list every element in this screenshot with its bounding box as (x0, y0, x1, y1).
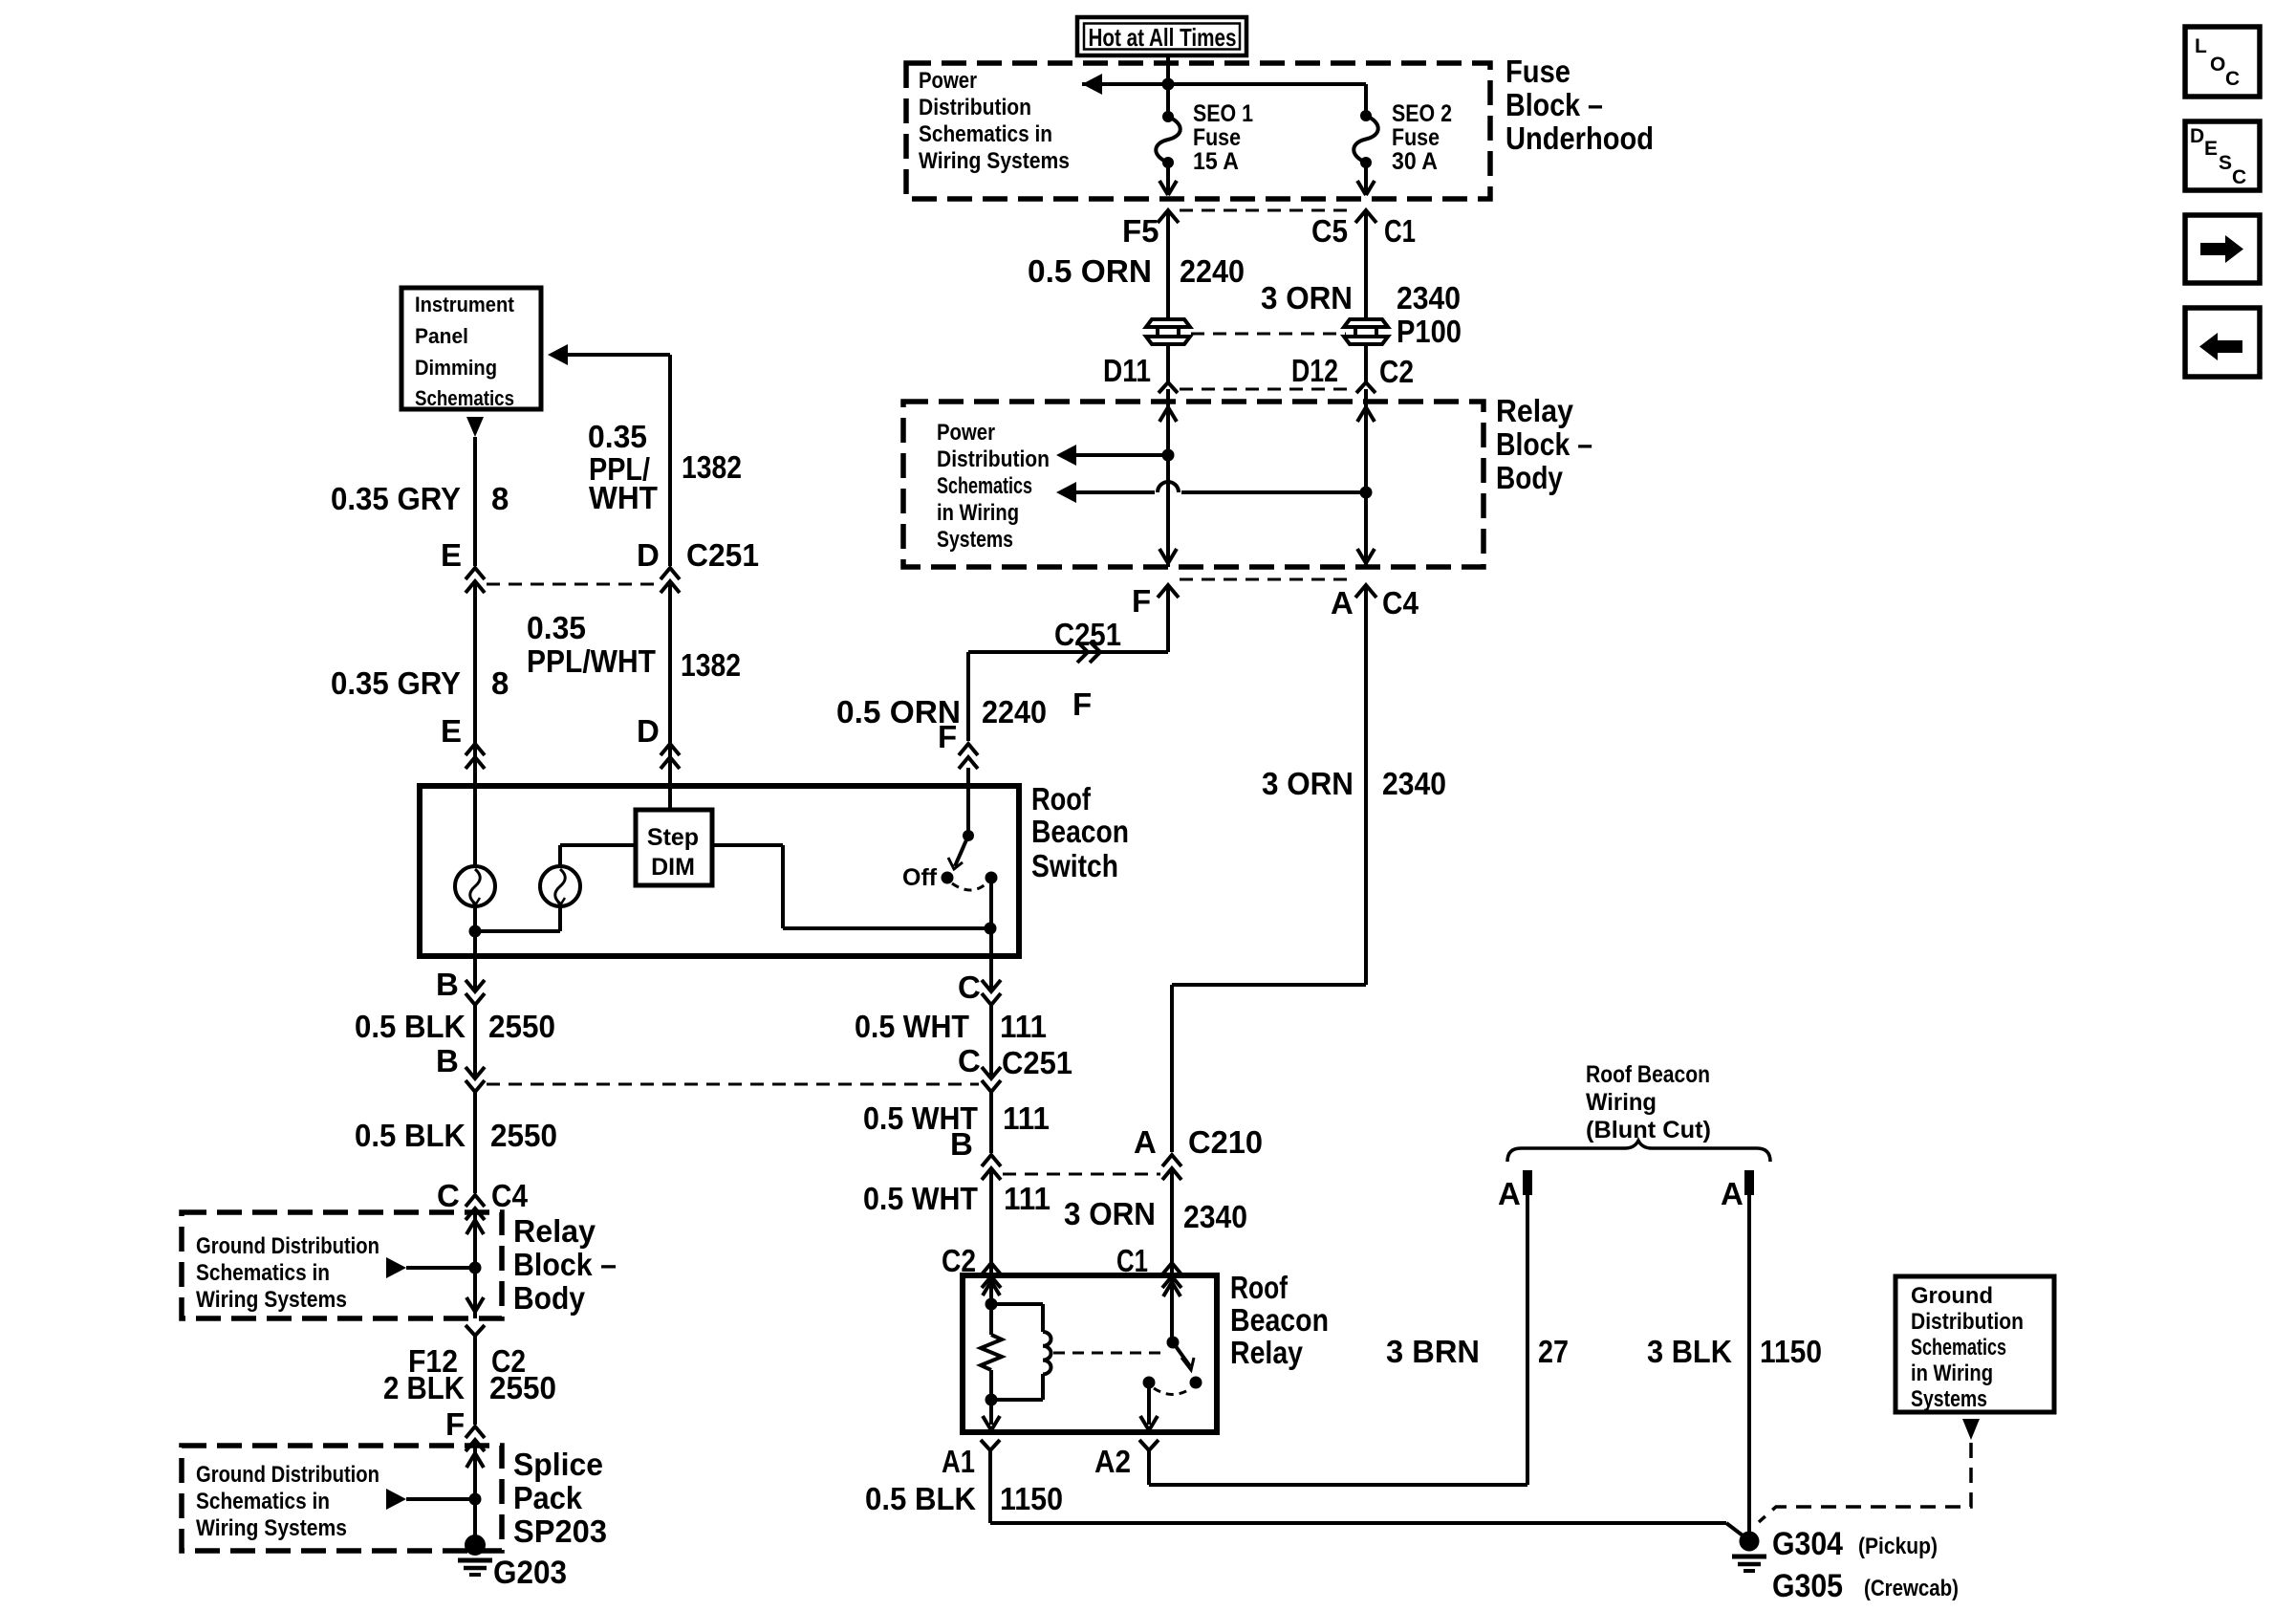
inline connector P100 on 3 ORN wire (1344, 319, 1388, 344)
svg-text:Body: Body (513, 1280, 586, 1316)
svg-text:SP203: SP203 (513, 1513, 607, 1549)
svg-text:D: D (637, 713, 660, 749)
wire: lamp bottoms joined (469, 925, 561, 957)
label: 3 BLK 1150 (1647, 1334, 1822, 1369)
text: Ground Distribution Schematics in Wiring Systems (splice pack) (196, 1462, 379, 1541)
box: Step DIM module (636, 810, 712, 885)
inline connector C210 on 3 ORN wire (1162, 1155, 1181, 1180)
label F (relay block output) (1132, 583, 1151, 619)
svg-text:Distribution: Distribution (919, 95, 1031, 120)
svg-text:C4: C4 (491, 1178, 529, 1213)
connector at switch terminal D (661, 744, 680, 769)
relay block - body dashed border (ground, left) (182, 1212, 502, 1318)
svg-text:B: B (436, 967, 459, 1002)
svg-text:G203: G203 (493, 1555, 567, 1591)
svg-text:1150: 1150 (1000, 1481, 1063, 1516)
svg-text:0.5 WHT: 0.5 WHT (863, 1181, 978, 1216)
svg-text:Schematics in: Schematics in (196, 1260, 330, 1286)
svg-text:C251: C251 (1002, 1045, 1072, 1080)
relay switch blade with arrowhead (1173, 1342, 1194, 1370)
label A (blunt cut right) (1721, 1176, 1744, 1211)
inline connector C251 on horizontal 0.5 ORN run (1077, 642, 1100, 663)
wire 0.5 WHT 111 from C251 to C210 (989, 1092, 993, 1153)
svg-text:C: C (2225, 68, 2240, 90)
svg-text:0.5 WHT: 0.5 WHT (855, 1009, 969, 1044)
svg-text:P100: P100 (1397, 314, 1462, 349)
label: 0.5 WHT 111 (upper) (855, 1009, 1047, 1044)
svg-text:Schematics: Schematics (1911, 1335, 2006, 1361)
fuse F2 SEO 2 Fuse 30 A (1354, 110, 1378, 168)
svg-text:Beacon: Beacon (1230, 1302, 1329, 1338)
label: 0.5 WHT 111 (middle) (863, 1100, 1050, 1136)
wire 0.35 GRY 8 from Instrument Panel box down to C251 (466, 417, 484, 566)
label: 0.5 ORN 2240 (fuse output) (1028, 253, 1245, 289)
svg-text:2340: 2340 (1183, 1199, 1247, 1234)
label: 0.5 ORN 2240 at switch feed (836, 694, 1047, 729)
label C2 (relay block top) (1379, 354, 1414, 389)
svg-text:C2: C2 (1379, 354, 1414, 389)
svg-text:WHT: WHT (589, 480, 658, 515)
blunt cut end (3 BLK) (1744, 1170, 1754, 1195)
label C (C4 row) (437, 1178, 460, 1213)
button previous (left arrow) (2185, 308, 2260, 377)
svg-text:1150: 1150 (1760, 1334, 1822, 1369)
svg-text:Schematics in: Schematics in (196, 1489, 330, 1514)
svg-text:0.5 BLK: 0.5 BLK (355, 1009, 466, 1044)
relay common contact dot (1167, 1337, 1180, 1349)
svg-text:Underhood: Underhood (1505, 120, 1654, 156)
label: 0.5 BLK 2550 (upper) (355, 1009, 555, 1044)
svg-text:Beacon: Beacon (1031, 814, 1129, 849)
junction dot relay block left bus (1162, 449, 1175, 462)
label: 0.5 BLK 2550 (lower) (355, 1118, 557, 1153)
svg-text:(Crewcab): (Crewcab) (1864, 1576, 1959, 1601)
svg-text:Roof: Roof (1230, 1270, 1289, 1305)
button LOC (2185, 27, 2260, 97)
wire 3 ORN 2340: C4 down, left, down to C210 (1172, 585, 1366, 1152)
wire: resistor to A1 leg (983, 1370, 1000, 1430)
label B (C210 row) (950, 1126, 973, 1162)
label C251 (B-C row) (1002, 1045, 1072, 1080)
text: Power Distribution Schematics in Wiring Systems (fuse block) (919, 68, 1070, 174)
svg-text:1382: 1382 (681, 647, 741, 683)
label F12 (408, 1343, 458, 1379)
connector at relay terminal A1 (981, 1440, 1000, 1450)
label: 0.35 PPL/WHT 1382 (lower) (527, 610, 741, 683)
wire: relay NC contact to A2 leg (1140, 1382, 1158, 1430)
label C210 (1188, 1124, 1263, 1160)
wire: Step DIM left pin to lamp 2 (560, 843, 636, 847)
svg-text:A2: A2 (1094, 1444, 1131, 1479)
box: Instrument Panel Dimming Schematics (401, 288, 541, 410)
arrow to power distribution schematics (upper) (1056, 445, 1168, 466)
svg-text:27: 27 (1538, 1334, 1569, 1369)
svg-text:F: F (445, 1406, 465, 1442)
svg-text:Ground Distribution: Ground Distribution (196, 1462, 379, 1488)
label C1 (1384, 213, 1416, 249)
label C (switch output) (958, 969, 981, 1005)
label: 0.5 WHT 111 (lower) (863, 1181, 1051, 1216)
dashed link C251 E-D (487, 583, 659, 586)
label A (C210 row) (1134, 1124, 1157, 1160)
svg-text:PPL/WHT: PPL/WHT (527, 643, 656, 679)
connector below left relay block (466, 1325, 485, 1336)
svg-text:A: A (1331, 585, 1354, 620)
svg-text:B: B (436, 1043, 459, 1078)
label F (splice pack input) (445, 1406, 465, 1442)
connector at switch terminal B (466, 980, 485, 1005)
switch contact dots and dashed travel arc (942, 872, 998, 891)
svg-text:Fuse: Fuse (1392, 124, 1440, 151)
label C251 (horizontal run) (1054, 617, 1121, 652)
svg-text:0.5 BLK: 0.5 BLK (865, 1481, 976, 1516)
junction dot in left relay block (469, 1262, 482, 1274)
svg-text:E: E (441, 713, 462, 749)
junction dot relay bottom-left (986, 1394, 998, 1406)
box: Ground Distribution Schematics in Wiring Systems (right) (1895, 1276, 2054, 1412)
svg-text:111: 111 (1000, 1009, 1047, 1044)
svg-text:2240: 2240 (1180, 253, 1245, 289)
label C1 (relay input) (1116, 1243, 1148, 1278)
label F (below C251 run) (1072, 686, 1092, 722)
svg-text:F: F (1072, 686, 1092, 722)
svg-text:SEO 2: SEO 2 (1392, 100, 1452, 127)
label: Roof Beacon Switch (1031, 781, 1129, 883)
label: Relay Block - Body (left) (513, 1213, 617, 1316)
svg-text:Power: Power (937, 420, 995, 446)
inline connector C210 on WHT wire (982, 1155, 1001, 1180)
connector at relay terminal C1 (1162, 1263, 1181, 1288)
svg-text:Wiring Systems: Wiring Systems (919, 148, 1070, 174)
wire 3 ORN 2340 from C210 to relay C1 (1170, 1168, 1174, 1275)
fuse block - underhood dashed border (906, 63, 1490, 199)
svg-text:Schematics in: Schematics in (919, 121, 1052, 147)
svg-text:C251: C251 (686, 537, 759, 573)
svg-text:Relay: Relay (1496, 393, 1574, 428)
dashed link between P100 halves (1191, 333, 1346, 336)
svg-text:O: O (2210, 54, 2225, 76)
svg-text:in Wiring: in Wiring (1911, 1361, 1993, 1386)
wire through splice pack to ground (466, 1440, 484, 1541)
wire 0.5 BLK 1150 from A1 to ground G304 (990, 1450, 1746, 1538)
svg-text:3 BLK: 3 BLK (1647, 1334, 1732, 1369)
svg-text:3 BRN: 3 BRN (1386, 1334, 1480, 1369)
svg-text:Roof: Roof (1031, 781, 1092, 816)
connector at switch terminal C (982, 980, 1001, 1005)
label: 0.35 PPL/WHT 1382 (upper) (588, 419, 742, 515)
label C2 (relay input) (942, 1243, 976, 1278)
label C251 (E-D row) (686, 537, 759, 573)
svg-text:0.35: 0.35 (588, 419, 647, 454)
svg-text:D12: D12 (1291, 353, 1338, 388)
svg-text:0.5 BLK: 0.5 BLK (355, 1118, 466, 1153)
dashed actuation link from coil to relay contacts (1053, 1352, 1162, 1355)
label: 3 ORN 2340 (lower) (1064, 1196, 1247, 1234)
wire 0.5 ORN 2240 from F5 to P100 (1166, 210, 1170, 321)
svg-text:Ground Distribution: Ground Distribution (196, 1233, 379, 1259)
svg-text:1382: 1382 (682, 449, 742, 485)
box: Roof Beacon Switch (420, 786, 1019, 956)
arrow from PPL/WHT wire into Instrument Panel box (548, 344, 670, 566)
text: Power Distribution Schematics in Wiring Systems (relay block) (937, 420, 1050, 553)
label D (lower) (637, 713, 660, 749)
wire: relay C2 leg to resistor (983, 1275, 1000, 1335)
label C2 (left relay block) (491, 1343, 526, 1379)
wire 0.5 WHT 111 from C210 to relay C2 (989, 1168, 993, 1275)
svg-text:Schematics: Schematics (415, 386, 514, 410)
connector at relay terminal A2 (1139, 1440, 1159, 1450)
svg-text:Ground: Ground (1911, 1283, 1993, 1309)
svg-text:Wiring: Wiring (1586, 1089, 1657, 1116)
svg-text:Relay: Relay (513, 1213, 596, 1249)
label: Roof Beacon Wiring (Blunt Cut) (1586, 1061, 1711, 1143)
wire from A2 right to 3 BRN splice (1149, 1450, 1527, 1485)
svg-text:3 ORN: 3 ORN (1261, 280, 1353, 316)
wire 0.5 BLK 2550 from C251 to C4 (473, 1092, 477, 1193)
wire: right bus through relay block body (D12-C2 to A-C4) (1357, 389, 1375, 567)
svg-text:A: A (1498, 1176, 1521, 1211)
svg-text:F: F (1132, 583, 1151, 619)
svg-text:D11: D11 (1103, 353, 1151, 388)
relay coil L1 (991, 1304, 1051, 1400)
svg-text:8: 8 (491, 665, 509, 701)
label D11 (1103, 353, 1151, 388)
svg-text:111: 111 (1003, 1100, 1050, 1136)
svg-text:C: C (437, 1178, 460, 1213)
label C4 (relay block output) (1382, 585, 1419, 620)
svg-text:Wiring Systems: Wiring Systems (196, 1287, 347, 1313)
label: Roof Beacon Relay (1230, 1270, 1329, 1370)
svg-text:2550: 2550 (490, 1118, 557, 1153)
arrow from ground distribution text to wire (relay block) (386, 1257, 469, 1278)
svg-text:15 A: 15 A (1193, 148, 1239, 175)
arrow to power distribution schematics (lower) with hop over left bus (1056, 482, 1366, 503)
label: 0.35 GRY 8 (lower) (331, 665, 509, 701)
svg-text:8: 8 (491, 481, 509, 516)
svg-text:Distribution: Distribution (937, 446, 1050, 472)
svg-text:0.35 GRY: 0.35 GRY (331, 665, 461, 701)
wire 3 BRN 27 blunt cut down to A2 junction (1526, 1195, 1529, 1485)
svg-text:C1: C1 (1384, 213, 1416, 249)
svg-text:(Pickup): (Pickup) (1858, 1534, 1938, 1559)
lamp (illumination bulb 1) in switch (455, 786, 495, 931)
wire 0.5 BLK 2550 from B to C251 (473, 956, 477, 1078)
label: Fuse Block - Underhood (1505, 54, 1654, 156)
svg-text:(Blunt Cut): (Blunt Cut) (1586, 1117, 1711, 1143)
splice pack dashed border (182, 1446, 502, 1551)
svg-text:Block –: Block – (1505, 87, 1603, 122)
inline connector C251 on GRY wire (466, 568, 485, 593)
svg-text:C5: C5 (1311, 213, 1348, 249)
label: SEO 1 Fuse 15 A (1193, 100, 1253, 175)
label E (lower) (441, 713, 462, 749)
label: 3 ORN 2340 on C4 drop (1262, 766, 1446, 801)
connector row F / A-C4 below relay block body (1158, 579, 1376, 598)
box: Hot at All Times (1077, 17, 1246, 55)
svg-text:Hot at All Times: Hot at All Times (1089, 23, 1237, 52)
svg-text:DIM: DIM (651, 854, 695, 881)
label: Splice Pack SP203 (513, 1447, 607, 1549)
svg-text:Systems: Systems (1911, 1386, 1987, 1412)
connector row F5 / C5-C1 below fuse block (1158, 210, 1376, 223)
label: 2 BLK 2550 (383, 1370, 556, 1405)
svg-text:Fuse: Fuse (1505, 54, 1570, 89)
ground G203 (458, 1535, 492, 1575)
wire 3 BLK 1150 blunt cut down to ground G304 (1747, 1195, 1751, 1534)
label: 3 BRN 27 (1386, 1334, 1569, 1369)
svg-text:2240: 2240 (982, 694, 1047, 729)
svg-text:A: A (1134, 1124, 1157, 1160)
dashed link C210 (1003, 1173, 1160, 1176)
svg-text:Block –: Block – (513, 1247, 617, 1282)
svg-text:G304: G304 (1772, 1526, 1843, 1562)
label A2 (1094, 1444, 1131, 1479)
svg-text:E: E (441, 537, 462, 573)
wire: relay C1 leg to common contact (1163, 1275, 1180, 1342)
wire 0.35 PPL/WHT 1382 from C251 to switch terminal D (668, 581, 672, 810)
svg-text:0.35: 0.35 (527, 610, 586, 645)
blunt cut end (3 BRN) (1523, 1170, 1532, 1195)
label Off (902, 864, 938, 891)
label: Relay Block - Body (1496, 393, 1592, 495)
svg-text:0.5 ORN: 0.5 ORN (1028, 253, 1152, 289)
wire segment: battery feed from Hot at All Times into fuse block (1166, 55, 1170, 117)
svg-text:S: S (2219, 152, 2232, 174)
junction dot relay top-left (986, 1298, 998, 1311)
svg-text:D: D (2190, 125, 2204, 147)
svg-text:C: C (958, 1043, 981, 1078)
resistor R (relay suppression) (981, 1335, 1002, 1370)
svg-text:0.35 GRY: 0.35 GRY (331, 481, 461, 516)
svg-text:Block –: Block – (1496, 426, 1592, 462)
relay contact dots and dashed travel arc (1143, 1377, 1202, 1395)
label D (upper) (637, 537, 660, 573)
inline connector C251 on WHT wire (982, 1067, 1001, 1092)
svg-text:111: 111 (1004, 1181, 1051, 1216)
wire: SEO1 fuse output to F5 terminal (1159, 163, 1177, 195)
svg-text:C210: C210 (1188, 1124, 1263, 1160)
button DESC (2185, 121, 2260, 190)
connector at relay terminal C2 (982, 1263, 1001, 1288)
label C4 (relay block body input) (491, 1178, 529, 1213)
svg-text:2550: 2550 (488, 1009, 555, 1044)
wire: P100 to D12 (1364, 342, 1368, 382)
svg-text:F5: F5 (1122, 213, 1159, 249)
box: Roof Beacon Relay (963, 1275, 1217, 1432)
svg-text:F: F (938, 719, 957, 754)
relay block - body dashed border (903, 402, 1484, 567)
label F5 (1122, 213, 1159, 249)
svg-text:Off: Off (902, 864, 938, 891)
connector row D11 / D12-C2 above relay block body (1159, 382, 1375, 393)
dashed link C251 B-C (487, 1083, 979, 1086)
dashed arrow from ground distribution box to G304 (1759, 1419, 1980, 1522)
arrow from ground distribution text to wire (splice pack) (386, 1489, 469, 1510)
svg-text:E: E (2204, 138, 2218, 160)
svg-text:Distribution: Distribution (1911, 1309, 2024, 1335)
svg-text:Schematics: Schematics (937, 473, 1032, 499)
svg-text:2 BLK: 2 BLK (383, 1370, 465, 1405)
wire: left bus through relay block body (D11 to F) (1159, 389, 1177, 567)
label G305 (Crewcab) (1772, 1568, 1959, 1604)
svg-text:SEO 1: SEO 1 (1193, 100, 1253, 127)
svg-text:Switch: Switch (1031, 848, 1118, 883)
label B (C251 row) (436, 1043, 459, 1078)
connector at relay block terminal C-C4 (466, 1195, 485, 1220)
svg-text:2550: 2550 (489, 1370, 556, 1405)
brace over blunt-cut wires (1507, 1141, 1770, 1162)
label G203 (493, 1555, 567, 1591)
svg-text:Power: Power (919, 68, 977, 94)
svg-text:Roof Beacon: Roof Beacon (1586, 1061, 1710, 1088)
svg-text:C: C (2232, 166, 2246, 188)
wire: P100 to D11 (1166, 342, 1170, 382)
label B (switch output) (436, 967, 459, 1002)
label E (upper) (441, 537, 462, 573)
svg-text:2340: 2340 (1382, 766, 1446, 801)
label A (blunt cut left) (1498, 1176, 1521, 1211)
label: 0.5 BLK 1150 (A1 ground lead) (865, 1481, 1063, 1516)
button next (right arrow) (2185, 215, 2260, 283)
wire through left relay block (466, 1208, 484, 1318)
label: 3 ORN 2340 (fuse output) (1261, 280, 1461, 316)
svg-text:A: A (1721, 1176, 1744, 1211)
svg-text:2340: 2340 (1397, 280, 1461, 316)
label P100 (1397, 314, 1462, 349)
svg-text:3 ORN: 3 ORN (1064, 1196, 1156, 1231)
wire 3 ORN 2340 from C1 to P100 (1364, 210, 1368, 321)
label A (relay block output) (1331, 585, 1354, 620)
inline connector C251 on PPL/WHT wire (661, 568, 680, 593)
label C5 (1311, 213, 1348, 249)
svg-text:30 A: 30 A (1392, 148, 1438, 175)
svg-text:Relay: Relay (1230, 1335, 1304, 1370)
svg-text:B: B (950, 1126, 973, 1162)
lamp (illumination bulb 2) in switch (540, 845, 580, 931)
svg-text:Pack: Pack (513, 1480, 583, 1515)
wire 0.5 ORN 2240: F down, left to C251 connector, down to switch (968, 585, 1168, 741)
svg-text:Fuse: Fuse (1193, 124, 1241, 151)
wire: Step DIM right pin to switch common (712, 845, 990, 928)
junction dot at switch output (985, 923, 997, 935)
switch blade (Off position) in Roof Beacon Switch (948, 768, 974, 869)
label D12 (1291, 353, 1338, 388)
wire 0.5 WHT 111 from C to C251 (989, 956, 993, 1078)
svg-text:Step: Step (647, 824, 699, 851)
svg-text:Systems: Systems (937, 527, 1013, 553)
svg-text:Splice: Splice (513, 1447, 603, 1482)
label G304 (Pickup) (1772, 1526, 1938, 1562)
wire: switch output C inside box (989, 878, 993, 956)
connector at splice pack terminal F (466, 1426, 485, 1451)
junction dot in splice pack (469, 1493, 482, 1506)
svg-text:C: C (958, 969, 981, 1005)
svg-text:Panel: Panel (415, 324, 468, 348)
svg-text:Body: Body (1496, 460, 1564, 495)
junction dot relay block right bus (1360, 487, 1373, 499)
svg-text:in Wiring: in Wiring (937, 500, 1019, 526)
label F at switch feed (938, 719, 957, 754)
svg-text:C251: C251 (1054, 617, 1121, 652)
svg-text:G305: G305 (1772, 1568, 1843, 1604)
text: Ground Distribution Schematics in Wiring Systems (relay block left) (196, 1233, 379, 1313)
svg-text:L: L (2195, 35, 2207, 57)
label C (C251 row) (958, 1043, 981, 1078)
wire: fuse block internal bus to SEO 2 fuse with arrow to Power Distribution (1082, 74, 1366, 116)
inline connector C251 on BLK wire (466, 1067, 485, 1092)
label: 0.35 GRY 8 (upper) (331, 481, 509, 516)
connector at switch terminal E (466, 744, 485, 769)
